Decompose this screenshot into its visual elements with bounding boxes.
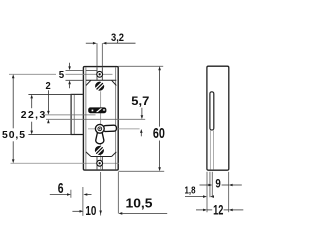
case contour top chamfers [86, 80, 91, 85]
bottom slot sides [96, 157, 98, 169]
front plate outer rectangle [83, 67, 118, 171]
svg-text:12: 12 [213, 203, 223, 218]
svg-text:5,7: 5,7 [131, 94, 149, 108]
dim 10 line and arrows [72, 210, 80, 212]
dim 22,3 line and arrows [30, 95, 33, 99]
dim 5 arrows [69, 63, 71, 67]
upper bolt centre line [45, 114, 96, 116]
case contour top line [86, 79, 116, 81]
bolt window [89, 108, 106, 113]
plate edge extension lines bottom [82, 187, 84, 216]
svg-text:60: 60 [153, 126, 165, 142]
top slot sides [96, 67, 98, 80]
dim 22,3 extension bottom line [28, 134, 71, 136]
keyhole ring [95, 124, 104, 133]
dim 2 leader and arrows [47, 90, 49, 111]
keyhole shaft [96, 131, 104, 144]
dim 60 extension lines [118, 65, 163, 67]
dim 6 line and arrows [50, 194, 68, 196]
case contour bottom line [91, 156, 112, 158]
side view slot [210, 92, 214, 130]
keyhole centre line [88, 128, 140, 130]
dim 3,2 extension lines [96, 43, 98, 66]
svg-text:3,2: 3,2 [111, 32, 124, 44]
svg-text:9: 9 [215, 177, 221, 190]
bottom hole centre line [11, 162, 120, 164]
dim 3,2 line and arrows [86, 42, 93, 44]
side view channel lines [209, 130, 211, 169]
plate inner top line [86, 69, 97, 71]
svg-text:5: 5 [59, 70, 65, 81]
key wing [103, 125, 116, 131]
left case box [71, 94, 83, 134]
top hole [97, 71, 103, 77]
bottom hole [97, 160, 103, 166]
svg-text:1,8: 1,8 [185, 185, 196, 196]
dim 12 line and arrows [196, 209, 204, 211]
bottom screw [95, 146, 104, 155]
side view extension lines [206, 172, 208, 212]
vertical axis line [100, 91, 102, 170]
top hole centre line [9, 73, 56, 75]
plate inner edge lines [85, 67, 87, 169]
dim 9 line and arrows [200, 184, 209, 186]
dim 50,5 line and arrows [12, 74, 15, 78]
top screw [95, 82, 104, 91]
svg-text:2: 2 [46, 80, 51, 92]
lower bolt centre line [46, 118, 145, 120]
dim 22,3 extension top line [28, 93, 83, 95]
dim 10,5 line and arrow [118, 212, 122, 215]
dim 5,7 arrows [141, 108, 143, 116]
left case inner line [73, 95, 75, 134]
side view body [207, 66, 229, 170]
svg-text:10,5: 10,5 [126, 197, 153, 211]
dim 60 line and arrows [158, 66, 161, 70]
dim 1,8 line and arrows [185, 196, 204, 198]
svg-text:10: 10 [85, 204, 96, 218]
case contour bottom chamfers [86, 152, 91, 157]
svg-text:50,5: 50,5 [2, 130, 25, 141]
svg-text:22,3: 22,3 [21, 110, 46, 121]
dim 6 extension line [70, 190, 72, 198]
